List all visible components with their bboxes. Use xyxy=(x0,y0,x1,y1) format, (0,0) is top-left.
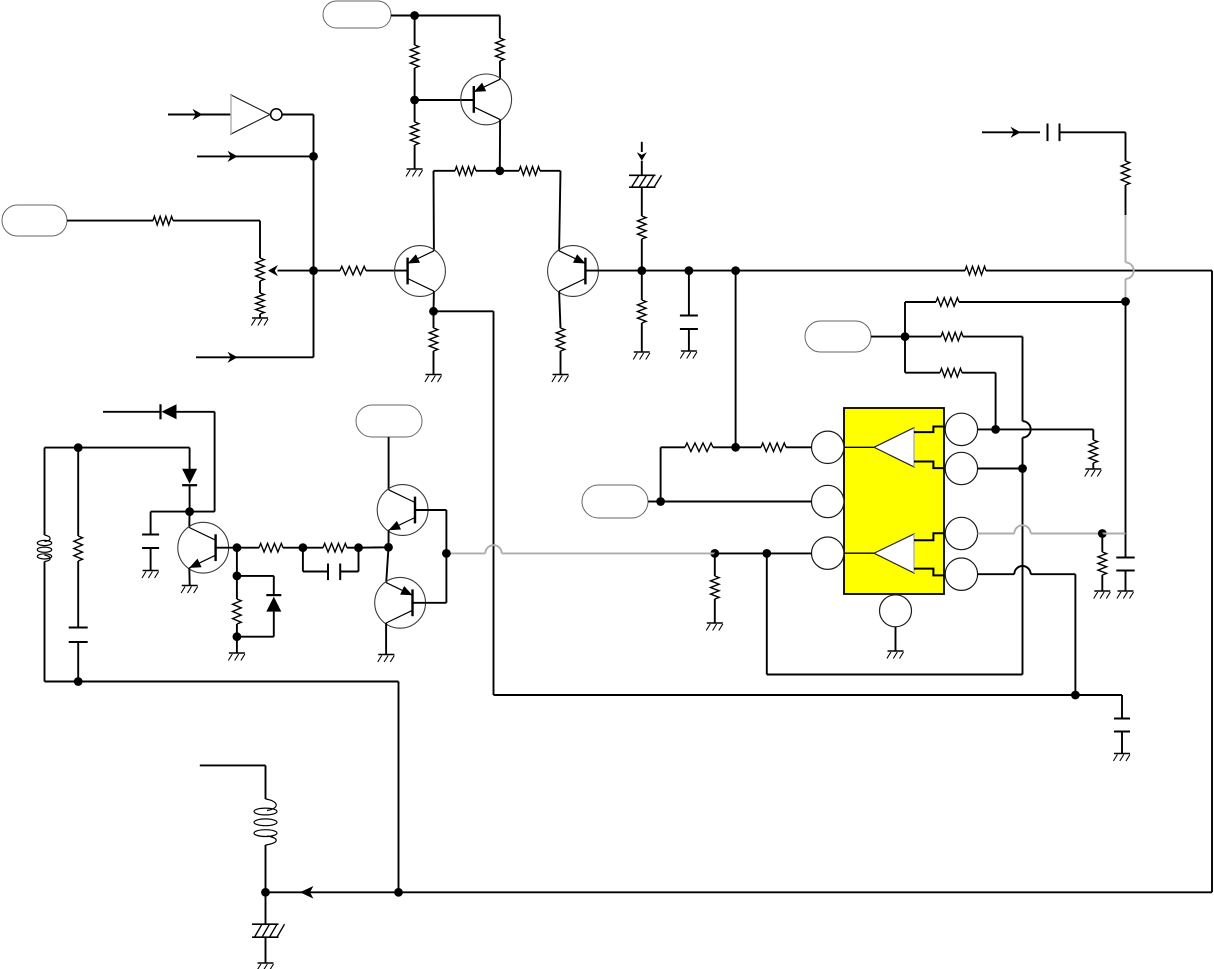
wire Q3 collector down xyxy=(559,291,560,328)
wire J29 to ground xyxy=(236,637,238,653)
U1 pin 8 bottom xyxy=(880,595,912,627)
wire J5 to R8 xyxy=(500,170,519,172)
wire hop over rail xyxy=(1126,262,1134,278)
wire R18 right down to J14 xyxy=(962,373,996,430)
down arrow to line symbol xyxy=(637,142,647,161)
wire R12 to node J7 xyxy=(641,239,643,271)
wire bottom-left run xyxy=(78,682,398,893)
ground G1 xyxy=(251,318,268,326)
capacitor C1 xyxy=(680,316,698,330)
wire R1 to pot xyxy=(173,221,260,258)
wire J26 to R26 xyxy=(303,547,323,549)
wire y695 corner down to C8 xyxy=(1121,695,1123,718)
wire J30 down to line symbol xyxy=(265,892,267,924)
node J9 xyxy=(731,266,740,275)
wire pin7 to hop xyxy=(978,573,1015,575)
U1 pin 5 right xyxy=(945,452,977,484)
U1 amp B triangle xyxy=(874,534,914,573)
wire R4 to node J4 xyxy=(414,68,416,100)
wire J17 down and right xyxy=(767,553,1023,674)
wire stub to L2 xyxy=(200,765,266,799)
resistor R20 xyxy=(761,443,786,452)
wire right edge down xyxy=(1211,271,1213,893)
AC line symbol LN1 xyxy=(629,175,662,187)
resistor R8 xyxy=(519,167,540,176)
node J29 xyxy=(233,632,242,641)
wire node J1 to node J2 xyxy=(313,156,315,270)
wire J22 right to D2 xyxy=(78,448,189,469)
node J14 xyxy=(991,425,1000,434)
ground G2 xyxy=(406,169,423,177)
ground G16 xyxy=(1113,754,1130,762)
node J22 xyxy=(74,443,83,452)
wire L2 down to J30 xyxy=(265,845,267,892)
wire J2 to R9 xyxy=(314,270,341,272)
wire J11 down branch xyxy=(905,337,940,373)
wire J7 to J8 xyxy=(642,270,689,272)
resistor R1 xyxy=(153,216,173,225)
wire Q3 base to node J7 xyxy=(586,270,642,272)
wire J6 right and down xyxy=(434,311,494,695)
diode D1 xyxy=(161,404,177,419)
U1 amp B input line xyxy=(844,552,874,554)
wire J6 to R10 xyxy=(433,311,435,328)
wire Q5 base to J25 xyxy=(216,547,237,549)
node J4 xyxy=(410,96,419,105)
inverter U2 xyxy=(231,95,282,134)
ground G9 xyxy=(228,653,245,661)
wire J22 down to R24 xyxy=(77,448,79,536)
wire gray hop to J19 xyxy=(1031,533,1103,535)
ground G15 xyxy=(1117,591,1134,599)
wire J14 to corner xyxy=(996,429,1094,440)
wire C4 to J23 xyxy=(77,642,79,682)
resistor R14 xyxy=(965,266,986,275)
capacitor C4 xyxy=(69,628,88,643)
resistor R16 xyxy=(936,298,959,307)
node J10 xyxy=(1121,297,1130,306)
wire R5 to Q1 emitter xyxy=(499,61,501,79)
wire R17 right down xyxy=(963,337,1023,422)
wire gray down to hop xyxy=(1125,215,1127,262)
wire stub to diode D1 xyxy=(103,411,160,413)
wire J8 to J9 xyxy=(689,270,736,272)
wire D3 down to J29 xyxy=(237,612,274,637)
wire J28 to R27 xyxy=(236,576,238,599)
resistor R21 xyxy=(711,576,720,599)
resistor R22 xyxy=(1089,440,1098,463)
resistor R12 xyxy=(638,216,647,239)
node J18 xyxy=(1018,464,1027,473)
resistor R24 xyxy=(74,536,83,561)
wire R9 to Q2 base xyxy=(366,270,407,272)
U1 amp A out step top xyxy=(914,427,944,433)
resistor R3 xyxy=(256,293,265,314)
wire node J3 to top of R5 xyxy=(415,16,500,39)
U1 amp A input line xyxy=(844,446,874,448)
wire C2 right and down xyxy=(1060,132,1126,161)
ground G13 xyxy=(1085,469,1102,477)
node J13 xyxy=(731,443,740,452)
wire hop over vertical 2 xyxy=(1014,566,1030,574)
transistor Q3 xyxy=(548,246,599,297)
wire J10 down xyxy=(1125,302,1127,558)
U1 pin 1 left xyxy=(812,431,844,463)
node J31 xyxy=(394,888,403,897)
node J17 xyxy=(762,549,771,558)
input arrow IN2 xyxy=(197,151,314,162)
node J28 xyxy=(233,572,242,581)
wire R10 to ground xyxy=(433,351,435,374)
wire R23 to ground xyxy=(1101,575,1103,591)
wire J24 left to C3 xyxy=(151,512,190,534)
inductor L2 xyxy=(254,799,277,845)
resistor R17 xyxy=(941,332,963,341)
wire J11 mid to R17 xyxy=(905,336,941,338)
wire pin1 to R20 xyxy=(786,446,812,448)
resistor R11 xyxy=(556,328,565,351)
wire R27 to J29 xyxy=(236,624,238,637)
node J20 xyxy=(1071,691,1080,700)
terminal T4 xyxy=(582,485,648,518)
wire pot junction xyxy=(259,281,261,293)
wire J8 down to C1 xyxy=(688,271,690,315)
input arrow IN1 xyxy=(168,109,231,120)
node J26 xyxy=(299,543,308,552)
wire J21 down to Q7 xyxy=(386,547,388,582)
U1 amp A out step bottom xyxy=(914,462,944,469)
transistor Q1 xyxy=(461,74,512,125)
wire J28 right to D3 xyxy=(237,576,274,595)
terminal T3 xyxy=(356,405,422,437)
wire J4 base of Q1 xyxy=(415,99,474,101)
AC line symbol LN2 xyxy=(252,924,285,937)
input arrow IN4 xyxy=(982,127,1040,138)
resistor R13 xyxy=(638,300,647,323)
terminal T2 xyxy=(2,205,67,236)
U1 pin 6 right xyxy=(945,517,977,549)
wire J19 down to R23 xyxy=(1101,534,1103,553)
ground G6 xyxy=(680,351,697,359)
wire J24 to Q5 collector xyxy=(188,512,190,528)
wire Q6 collector right down xyxy=(415,510,446,553)
wire hop to corner down xyxy=(1031,574,1076,695)
wire R20 to J13 xyxy=(736,446,761,448)
resistor R9 xyxy=(340,266,366,275)
node J30 xyxy=(261,888,270,897)
wire J11 up branch xyxy=(905,302,936,337)
transistor Q2 xyxy=(395,246,446,297)
ground G14 xyxy=(1094,591,1111,599)
pot wiper arrow xyxy=(268,265,314,276)
wire J7 down to R13 xyxy=(641,271,643,300)
resistor R4 xyxy=(410,45,419,68)
wire pin6 gray to hop xyxy=(978,533,1015,535)
wire J12 to pin2 xyxy=(661,501,812,503)
transistor Q5 xyxy=(178,522,229,573)
wire T5 to node J11 xyxy=(871,336,905,338)
resistor R26 xyxy=(323,543,347,552)
node J2 xyxy=(309,266,318,275)
node J12 xyxy=(656,497,665,506)
resistor R27 xyxy=(233,599,242,624)
node J21 xyxy=(384,543,393,552)
node J19 xyxy=(1098,529,1107,538)
wire J3 down to R4 xyxy=(414,16,416,46)
ground G17 xyxy=(257,963,274,969)
wire R14 to right edge xyxy=(986,270,1212,272)
wire T1 to node J3 xyxy=(391,15,415,17)
node J7 xyxy=(637,266,646,275)
node J1 xyxy=(309,152,318,161)
node J11 xyxy=(901,332,910,341)
U1 pin 4 right xyxy=(945,413,977,445)
U1 pin 2 left xyxy=(812,485,844,517)
ground G12 xyxy=(887,651,904,659)
diode D3 xyxy=(266,595,281,612)
terminal T5 xyxy=(805,321,871,352)
resistor R25 xyxy=(259,543,283,552)
wire hop over collector line xyxy=(485,545,501,553)
wire IN3 up to node J2 xyxy=(313,271,315,358)
wire R16 to J10 xyxy=(959,301,1126,303)
wire vertical below hop xyxy=(1022,438,1024,675)
node J24 xyxy=(185,507,194,516)
U1 amp B out step bottom xyxy=(914,569,944,576)
ground G4 xyxy=(552,375,569,383)
node J8 xyxy=(685,266,694,275)
wire R26 to J27 xyxy=(347,547,359,549)
wire vertical hop over pin wire xyxy=(1023,421,1031,437)
wire R6 to ground xyxy=(414,145,416,169)
wire R8 right xyxy=(540,171,561,251)
wire R15 down black xyxy=(1125,185,1127,215)
bottom rail with arrow xyxy=(266,886,1213,899)
resistor R15 xyxy=(1121,161,1130,185)
node J25 xyxy=(233,543,242,552)
wire T2 to R1 xyxy=(67,220,153,222)
wire R22 to ground xyxy=(1092,463,1094,469)
wire J5 left xyxy=(434,171,456,251)
capacitor C3 xyxy=(142,535,159,549)
wire R7 to J5 xyxy=(476,170,500,172)
wire R19 corner down xyxy=(661,447,685,501)
wire gray J15 to hop xyxy=(502,552,715,554)
capacitor C8 xyxy=(1114,719,1130,732)
wire Q7 base right up xyxy=(413,553,447,602)
wire arrow to line symbol xyxy=(641,161,643,176)
wire C5 left leg xyxy=(303,548,329,572)
diode D2 xyxy=(182,469,197,486)
wire pin5 to J18 xyxy=(978,468,1023,470)
wire bottom run y695 xyxy=(494,694,1123,696)
wire Q1 collector down xyxy=(499,120,501,171)
resistor R6 xyxy=(410,122,419,145)
wire J25 down to J28 xyxy=(236,548,238,576)
wire C6 to ground xyxy=(1125,571,1127,591)
resistor R10 xyxy=(429,328,438,351)
wire J15 down to R21 xyxy=(714,553,716,576)
wire Q7 collector to ground xyxy=(385,623,387,654)
terminal T1 xyxy=(323,1,391,28)
capacitor C6 xyxy=(1116,558,1134,571)
wire gray hop over vertical xyxy=(1014,525,1030,533)
wire pin4 to J14 xyxy=(978,428,996,430)
resistor R23 xyxy=(1098,552,1107,575)
wire gray hop to J16 xyxy=(446,552,485,554)
node J27 xyxy=(354,543,363,552)
U1 pin 3 left xyxy=(812,537,844,569)
capacitor C2 xyxy=(1048,124,1060,142)
capacitor C5 xyxy=(328,564,340,581)
wire U1 gnd pin xyxy=(895,627,897,651)
wire J27 to J21 xyxy=(359,546,389,548)
wire T4 to J12 xyxy=(648,501,661,503)
wire J4 down to R6 xyxy=(414,100,416,122)
wire L1 down corner xyxy=(45,562,79,682)
resistor R19 xyxy=(685,443,713,452)
input arrow IN3 xyxy=(196,352,314,363)
node J16 xyxy=(442,549,451,558)
wire R13 to ground xyxy=(641,323,643,352)
node J5 xyxy=(495,166,504,175)
wire Q5 emitter to ground xyxy=(188,568,190,585)
wire C1 to ground xyxy=(688,329,690,351)
wire Q6 emitter to J21 xyxy=(388,530,390,547)
ground G5 xyxy=(633,352,650,360)
wire line symbol to ground xyxy=(265,937,267,962)
wire pin3 black xyxy=(715,552,812,554)
wire D2 to J24 xyxy=(189,485,191,511)
wire C3 to ground xyxy=(150,548,152,570)
wire J25 to R25 xyxy=(237,547,259,549)
ground G8 xyxy=(181,586,198,594)
transistor Q7 xyxy=(375,577,426,628)
wire J9 to R14 xyxy=(736,270,965,272)
wire C5 right leg xyxy=(340,548,359,572)
comparator IC U1 body xyxy=(844,408,944,594)
wire R11 to ground xyxy=(560,351,562,374)
inductor L1 xyxy=(37,535,51,562)
resistor R7 xyxy=(455,167,476,176)
U1 amp A triangle xyxy=(874,428,914,467)
wire Q2 collector down xyxy=(433,291,435,311)
wire R24 to C4 xyxy=(77,561,79,627)
resistor R18 xyxy=(940,368,962,377)
wire line symbol to R12 xyxy=(641,187,643,216)
wire R25 to J26 xyxy=(283,547,303,549)
resistor R5 xyxy=(496,38,505,61)
wire gray hop to node J10 xyxy=(1125,279,1127,302)
wire T3 down to Q6 xyxy=(388,437,390,490)
wire R3 to ground xyxy=(259,314,261,318)
ground G10 xyxy=(378,655,395,663)
wire gray J19 to vertical xyxy=(1102,533,1125,535)
node J23 xyxy=(74,677,83,686)
U1 pin 7 right xyxy=(945,558,977,590)
wire J9 down to J13 xyxy=(735,271,737,448)
node J15 xyxy=(710,549,719,558)
node J6 xyxy=(429,307,438,316)
node J3 xyxy=(410,11,419,20)
ground G7 xyxy=(142,571,159,579)
wire C8 to ground xyxy=(1121,732,1123,754)
U1 amp B out step top xyxy=(914,533,944,540)
wire inverter output xyxy=(282,115,314,157)
transistor Q6 xyxy=(377,485,428,536)
wire R21 to ground xyxy=(714,599,716,623)
ground G11 xyxy=(706,623,723,631)
wire D1 right down xyxy=(177,412,215,512)
wire J22 left to L1 xyxy=(45,448,79,535)
ground G3 xyxy=(425,375,442,383)
potentiometer R2 xyxy=(256,258,265,281)
wire J13 to R19 xyxy=(713,446,736,448)
